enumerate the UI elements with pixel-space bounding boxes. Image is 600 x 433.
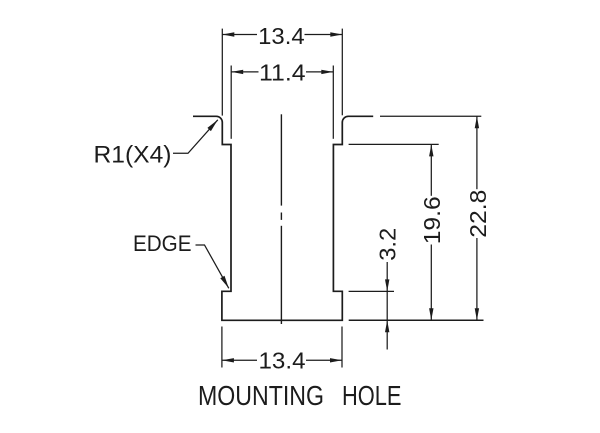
svg-text:3.2: 3.2 [375,228,401,261]
centerline [280,114,282,324]
svg-text:19.6: 19.6 [419,196,445,244]
dimension 3.2 [349,262,394,350]
svg-text:EDGE: EDGE [133,231,192,256]
svg-text:HOLE: HOLE [342,380,402,411]
svg-text:MOUNTING: MOUNTING [198,380,324,411]
svg-text:R1(X4): R1(X4) [94,142,172,169]
svg-text:13.4: 13.4 [259,347,306,373]
svg-text:11.4: 11.4 [259,60,306,86]
dimension 13.4 bottom [222,327,342,368]
mounting hole profile outline [193,116,373,320]
svg-text:13.4: 13.4 [258,23,305,49]
dimension 19.6 [349,144,439,320]
dimension 13.4 top [222,29,342,116]
dimension 11.4 [231,66,333,139]
bottom edge extension line [349,319,484,321]
dimension 22.8 [380,116,481,320]
svg-text:22.8: 22.8 [465,190,491,238]
